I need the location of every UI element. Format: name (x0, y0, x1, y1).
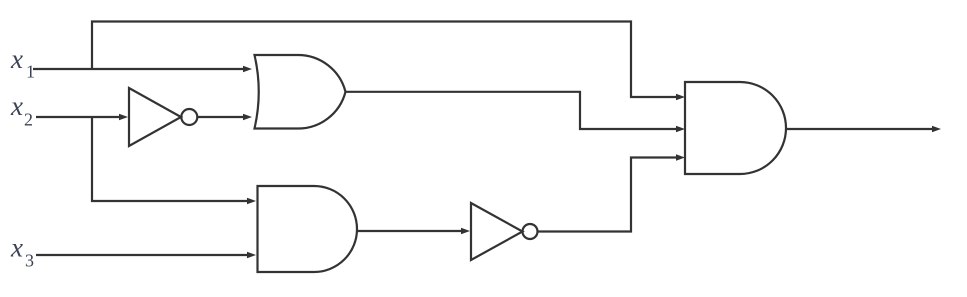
AND gate 1 (bottom) (258, 186, 358, 272)
output wire f (786, 126, 941, 132)
wire x1 to OR gate (33, 66, 252, 72)
wire OR output to output AND middle input (346, 92, 686, 132)
input label x2 (10, 91, 33, 130)
svg-text:1: 1 (26, 62, 35, 82)
input label x1 (10, 44, 35, 82)
NOT gate 1 (inverter on x2) (129, 88, 197, 146)
wire x3 to AND1 (36, 252, 256, 258)
wire NOT2 up to output AND bottom input (538, 154, 686, 231)
wire x2 to NOT1 (36, 114, 128, 120)
NOT gate 2 (inverter after AND1) (471, 203, 538, 260)
OR gate U1 (255, 55, 346, 129)
svg-text:3: 3 (25, 251, 34, 271)
svg-text:2: 2 (24, 110, 33, 130)
AND gate 2 (output gate) (685, 82, 786, 174)
svg-text:x: x (10, 91, 23, 121)
wire NOT1 to OR gate (198, 114, 253, 120)
svg-text:x: x (10, 44, 23, 74)
wire top feedback (x1 branch over top to output AND) (92, 22, 685, 101)
input label x3 (10, 233, 34, 271)
wire AND1 to NOT2 (357, 228, 470, 234)
wire x2 branch down to AND1 (92, 117, 256, 204)
svg-text:x: x (10, 233, 23, 263)
